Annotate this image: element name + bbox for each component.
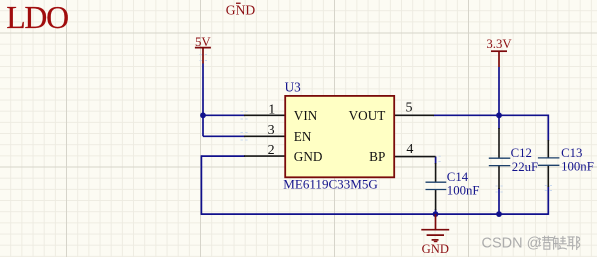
svg-text:C14: C14 — [447, 170, 469, 184]
svg-text:ME6119C33M5G: ME6119C33M5G — [283, 177, 378, 192]
svg-text:100nF: 100nF — [447, 183, 480, 197]
svg-text:BP: BP — [369, 149, 385, 164]
svg-text:CSDN @: CSDN @ — [482, 236, 542, 252]
svg-text:5V: 5V — [195, 35, 211, 49]
svg-text:U3: U3 — [285, 80, 302, 95]
svg-text:GND: GND — [294, 149, 323, 164]
svg-text:LDO: LDO — [6, 0, 68, 35]
svg-text:22uF: 22uF — [512, 160, 538, 174]
svg-text:3: 3 — [268, 123, 275, 138]
svg-text:C13: C13 — [561, 146, 582, 160]
svg-text:2: 2 — [268, 143, 275, 158]
svg-text:100nF: 100nF — [561, 160, 594, 174]
svg-text:3.3V: 3.3V — [486, 37, 512, 51]
svg-text:VOUT: VOUT — [349, 108, 386, 123]
svg-text:5: 5 — [406, 101, 413, 116]
svg-text:EN: EN — [294, 129, 312, 144]
svg-text:GND: GND — [226, 3, 256, 18]
svg-text:GND: GND — [422, 242, 449, 256]
svg-text:C12: C12 — [511, 146, 532, 160]
svg-text:4: 4 — [406, 142, 413, 157]
svg-text:1: 1 — [268, 103, 275, 118]
svg-text:VIN: VIN — [294, 108, 318, 123]
